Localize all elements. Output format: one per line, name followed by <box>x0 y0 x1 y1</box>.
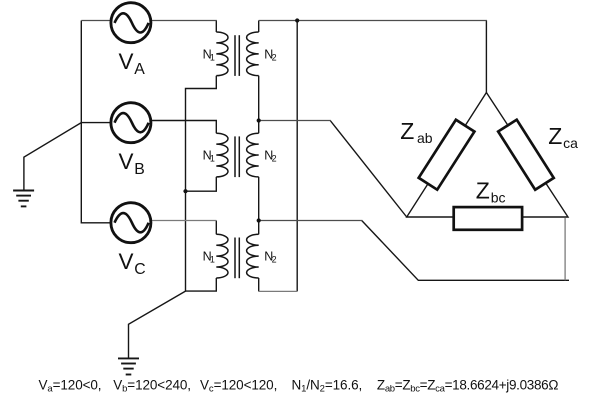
svg-text:bc: bc <box>491 190 506 206</box>
svg-text:C: C <box>134 261 145 278</box>
svg-text:V: V <box>119 249 134 274</box>
svg-text:Z: Z <box>400 118 414 144</box>
svg-text:V: V <box>119 49 134 74</box>
svg-text:1: 1 <box>210 153 215 163</box>
svg-text:Zab=Zbc=Zca=18.6624+j9.0386Ω: Zab=Zbc=Zca=18.6624+j9.0386Ω <box>377 377 558 394</box>
svg-text:Z: Z <box>476 177 490 203</box>
svg-text:1: 1 <box>210 52 215 62</box>
svg-text:ab: ab <box>417 130 433 146</box>
svg-text:B: B <box>134 161 145 178</box>
svg-text:2: 2 <box>272 255 277 265</box>
svg-text:1: 1 <box>210 255 215 265</box>
svg-text:V: V <box>119 149 134 174</box>
svg-text:Z: Z <box>548 123 562 149</box>
svg-text:ca: ca <box>563 135 578 151</box>
svg-text:A: A <box>134 61 145 78</box>
svg-text:2: 2 <box>272 52 277 62</box>
svg-text:2: 2 <box>272 153 277 163</box>
